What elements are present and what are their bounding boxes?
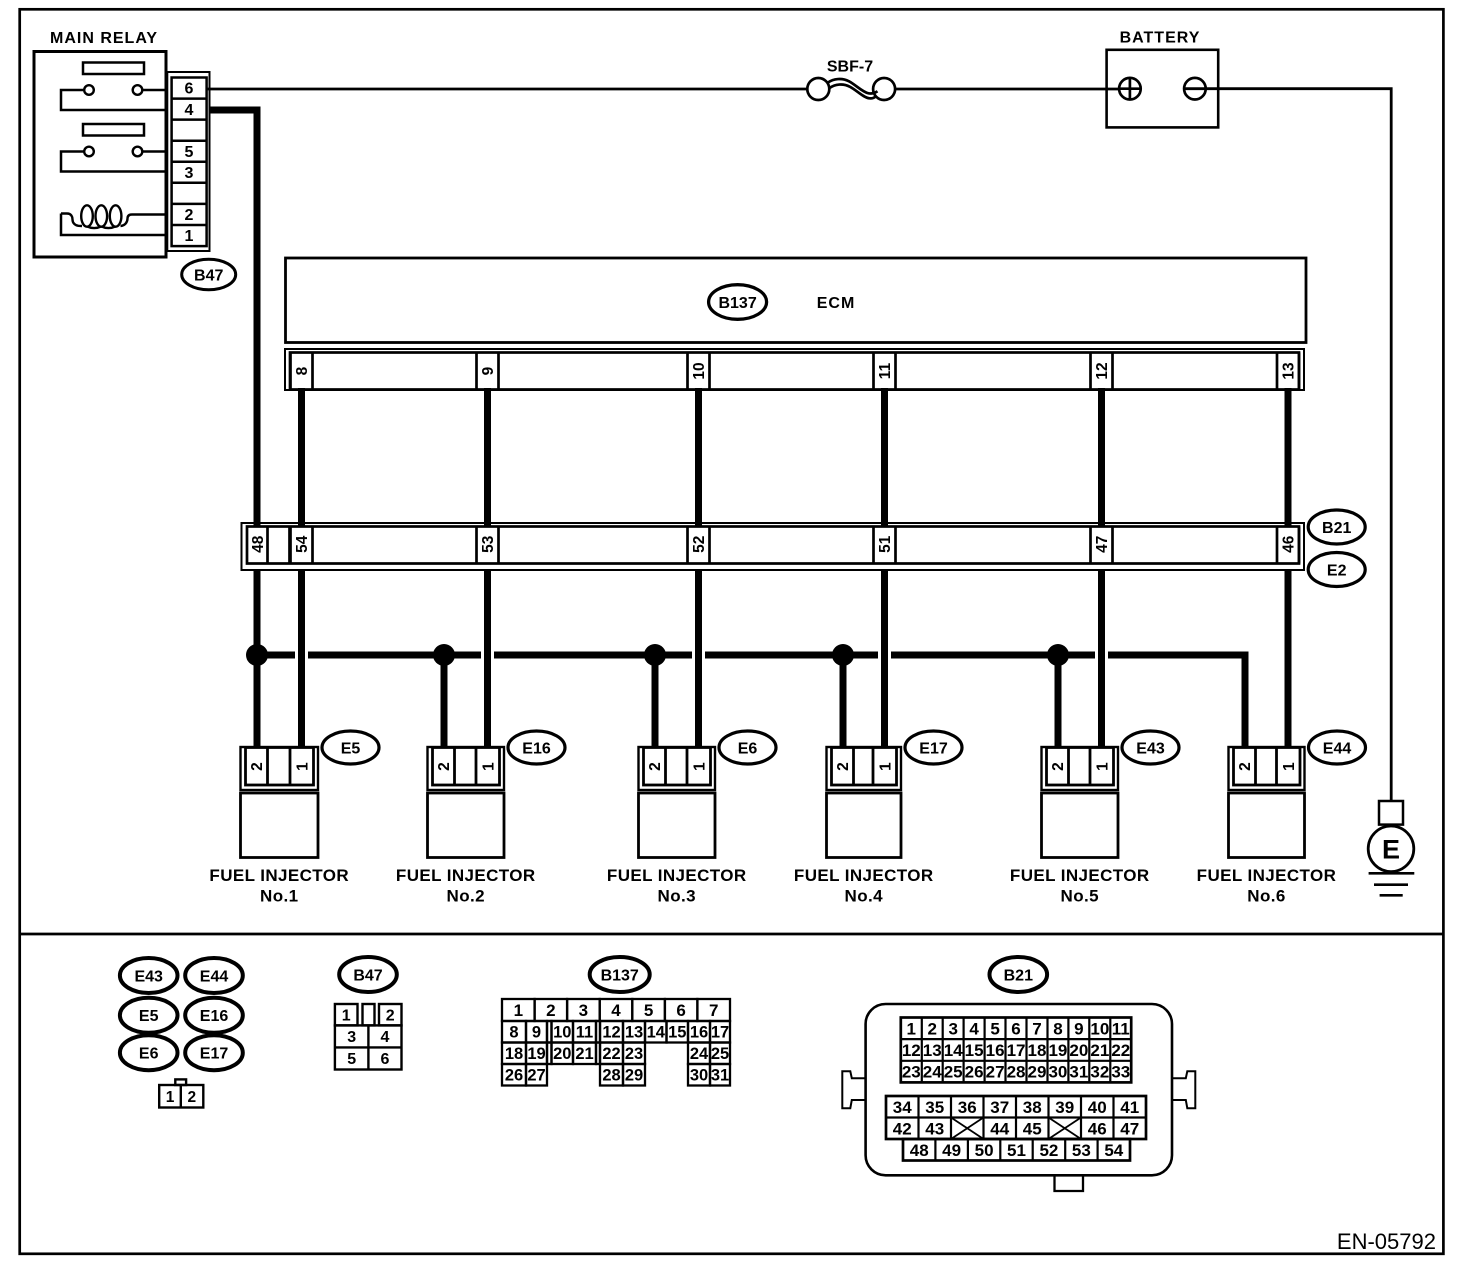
svg-text:B21: B21: [1004, 967, 1033, 984]
pin 46: [1281, 535, 1298, 553]
wire: bus down to injector No.3 pin 2: [652, 655, 659, 748]
B21 view pin 1: [907, 1019, 916, 1038]
svg-text:No.5: No.5: [1061, 887, 1099, 906]
B47 view pin 5: [347, 1051, 356, 1068]
svg-text:26: 26: [965, 1063, 984, 1082]
fuel injector No.5 connector: [1042, 747, 1119, 858]
svg-text:53: 53: [480, 535, 497, 553]
battery positive terminal: [1119, 78, 1141, 100]
injector No.6 pin 1: [1281, 762, 1298, 771]
wire: injector supply bus segment 4: [705, 652, 878, 659]
ECM pin 8: [294, 366, 311, 375]
injector No.4 pin 2: [835, 762, 852, 771]
svg-text:6: 6: [381, 1051, 390, 1068]
svg-text:15: 15: [668, 1024, 686, 1042]
svg-text:SBF-7: SBF-7: [827, 59, 873, 76]
wire: injector supply bus segment 6: [1108, 652, 1249, 659]
svg-text:12: 12: [1094, 362, 1111, 379]
svg-text:2: 2: [647, 762, 664, 771]
connector B47 pin strip: [172, 78, 207, 247]
injector No.1 pin 1: [295, 762, 312, 771]
svg-text:FUEL INJECTOR: FUEL INJECTOR: [607, 866, 747, 885]
fuse SBF-7: [807, 78, 895, 100]
svg-text:49: 49: [942, 1141, 961, 1160]
svg-text:46: 46: [1088, 1119, 1107, 1138]
fuel injector No.6 connector: [1229, 747, 1305, 858]
svg-text:E5: E5: [139, 1008, 159, 1025]
svg-text:5: 5: [644, 1001, 653, 1020]
connector B47 pin view: [335, 1004, 402, 1070]
fuel injector No.2 label: [396, 866, 536, 906]
svg-text:31: 31: [1069, 1063, 1088, 1082]
connector B137 pin view: [502, 999, 730, 1086]
svg-text:17: 17: [1007, 1041, 1026, 1060]
svg-text:3: 3: [347, 1029, 356, 1046]
svg-text:51: 51: [877, 535, 894, 553]
B137 view pin 6: [676, 1001, 685, 1020]
svg-text:26: 26: [505, 1067, 523, 1085]
B21 view pin 41: [1120, 1098, 1139, 1117]
connector B47 outline: [167, 72, 209, 251]
B137 view pin 27: [527, 1067, 545, 1085]
B21 view pin 3: [948, 1019, 957, 1038]
wire: bus down to injector No.5 pin 2: [1055, 655, 1062, 748]
svg-text:18: 18: [505, 1045, 523, 1063]
B21 view pin 27: [986, 1063, 1005, 1082]
svg-text:16: 16: [986, 1041, 1005, 1060]
svg-text:1: 1: [342, 1008, 351, 1025]
connector E2 designator oval: [1308, 553, 1365, 587]
svg-text:FUEL INJECTOR: FUEL INJECTOR: [794, 866, 934, 885]
relay coil wire to pin 1: [61, 214, 167, 236]
svg-text:54: 54: [294, 535, 311, 553]
svg-text:2: 2: [386, 1008, 395, 1025]
connector E16 designator oval: [508, 731, 565, 764]
svg-text:No.2: No.2: [447, 887, 485, 906]
B21 view pin 42: [893, 1119, 912, 1138]
B21 view pins 48-54 grid: [903, 1139, 1130, 1161]
svg-text:10: 10: [1090, 1019, 1109, 1038]
ECM connector strip cells: [290, 353, 1299, 390]
B47 view pin 2: [386, 1008, 395, 1025]
svg-text:EN-05792: EN-05792: [1337, 1229, 1436, 1254]
injector No.3 pin 2: [647, 762, 664, 771]
B21 view pin 47: [1120, 1119, 1139, 1138]
svg-text:20: 20: [1069, 1041, 1088, 1060]
B21 view pin 7: [1032, 1019, 1041, 1038]
B21 view pin 11: [1112, 1019, 1130, 1038]
svg-text:8: 8: [294, 366, 311, 375]
wire: injector supply bus segment 1: [254, 652, 296, 659]
relay contact 2 wire to pin 5: [142, 150, 167, 153]
connector E16 designator oval (legend): [185, 998, 243, 1033]
injector pin view pin 1: [166, 1089, 175, 1106]
wire: relay pin 6 to fuse SBF-7: [207, 88, 808, 91]
svg-text:2: 2: [1050, 762, 1067, 771]
ECM label: [817, 295, 856, 312]
svg-text:36: 36: [958, 1098, 977, 1117]
pin 53: [480, 535, 497, 553]
svg-text:2: 2: [436, 762, 453, 771]
B137 view pin 21: [575, 1045, 593, 1063]
wire: ECM pin 13 down to middle connector: [1285, 388, 1292, 527]
fuel injector No.4 label: [794, 866, 934, 906]
svg-text:54: 54: [1104, 1141, 1123, 1160]
B47 view pin 1: [342, 1008, 351, 1025]
svg-text:1: 1: [481, 762, 498, 771]
svg-text:3: 3: [579, 1001, 588, 1020]
main relay box: [34, 52, 166, 258]
svg-text:FUEL INJECTOR: FUEL INJECTOR: [209, 866, 349, 885]
wire: ECM pin 9 down to middle connector: [484, 388, 491, 527]
svg-text:E43: E43: [134, 968, 163, 985]
B21 view pin 48: [910, 1141, 929, 1160]
svg-text:E17: E17: [200, 1046, 229, 1063]
ECM pin 10: [691, 362, 708, 379]
B21 view pin 43: [925, 1119, 944, 1138]
ground symbol: [1369, 873, 1415, 895]
B21 view pin 52: [1039, 1141, 1058, 1160]
fuel injector No.3 connector: [639, 747, 716, 858]
svg-text:E44: E44: [200, 968, 229, 985]
svg-text:52: 52: [1039, 1141, 1058, 1160]
main relay label: [50, 30, 158, 47]
svg-text:6: 6: [185, 81, 194, 98]
svg-text:2: 2: [185, 207, 194, 224]
svg-text:9: 9: [532, 1024, 541, 1042]
svg-text:28: 28: [1007, 1063, 1026, 1082]
pin 54: [294, 535, 311, 553]
B21 view pin 22: [1111, 1041, 1130, 1060]
B21 view pin 53: [1072, 1141, 1091, 1160]
svg-text:23: 23: [625, 1045, 643, 1063]
svg-text:E6: E6: [738, 740, 758, 757]
B21 view pin 38: [1023, 1098, 1042, 1117]
fuel injector No.2 connector: [428, 747, 505, 858]
relay contact 1 circles: [84, 85, 142, 95]
junction node injector 2: [433, 644, 455, 666]
wire: injector supply bus segment 2: [308, 652, 481, 659]
battery label: [1120, 30, 1201, 47]
B21 view pin 16: [986, 1041, 1005, 1060]
svg-text:30: 30: [1048, 1063, 1067, 1082]
svg-text:24: 24: [923, 1063, 942, 1082]
svg-text:43: 43: [925, 1119, 944, 1138]
svg-text:17: 17: [711, 1024, 729, 1042]
B137 view pin 29: [625, 1067, 643, 1085]
relay contact 2 circles: [84, 147, 142, 157]
connector E6 designator oval: [719, 731, 776, 764]
svg-text:10: 10: [553, 1024, 571, 1042]
svg-text:3: 3: [185, 165, 194, 182]
svg-text:13: 13: [625, 1024, 643, 1042]
svg-text:8: 8: [509, 1024, 518, 1042]
svg-text:39: 39: [1055, 1098, 1074, 1117]
B137 view pin 14: [647, 1024, 666, 1042]
svg-text:E17: E17: [919, 740, 948, 757]
B47 view pin 3: [347, 1029, 356, 1046]
svg-text:7: 7: [1032, 1019, 1041, 1038]
wire: injector supply bus segment 3: [494, 652, 692, 659]
svg-text:19: 19: [527, 1045, 545, 1063]
B137 view pin 9: [532, 1024, 541, 1042]
svg-text:38: 38: [1023, 1098, 1042, 1117]
B21 view pin 5: [990, 1019, 999, 1038]
B137 view pin 3: [579, 1001, 588, 1020]
B137 view pin 5: [644, 1001, 653, 1020]
svg-text:19: 19: [1048, 1041, 1067, 1060]
svg-text:25: 25: [711, 1045, 729, 1063]
B21 view pin 26: [965, 1063, 984, 1082]
svg-text:B137: B137: [601, 967, 639, 984]
svg-text:6: 6: [1011, 1019, 1020, 1038]
relay contact 2 bar: [83, 124, 144, 136]
B137 view pin 15: [668, 1024, 686, 1042]
svg-text:2: 2: [546, 1001, 555, 1020]
fuel injector No.3 label: [607, 866, 747, 906]
svg-text:2: 2: [927, 1019, 936, 1038]
B137 view pin 23: [625, 1045, 643, 1063]
middle connector strip cells (B21): [247, 527, 1299, 564]
B137 view pin 1: [514, 1001, 523, 1020]
B21 view pin 18: [1028, 1041, 1047, 1060]
svg-text:27: 27: [986, 1063, 1005, 1082]
injector No.2 pin 2: [436, 762, 453, 771]
wire: pin 48 down to bus junction: [254, 570, 261, 656]
svg-text:14: 14: [647, 1024, 666, 1042]
B137 view pin 4: [611, 1001, 621, 1020]
ECM pin 9: [480, 366, 497, 375]
svg-text:B21: B21: [1322, 520, 1351, 537]
junction node injector 1: [246, 644, 268, 666]
svg-text:E16: E16: [200, 1008, 229, 1025]
svg-text:21: 21: [575, 1045, 593, 1063]
relay contact 1 wire to pin 4: [61, 90, 167, 110]
svg-text:E43: E43: [1136, 740, 1165, 757]
pin 47: [1094, 536, 1111, 553]
relay contact 2 wire to pin 3: [61, 152, 167, 172]
B21 view pin 36: [958, 1098, 977, 1117]
pin 4: [185, 102, 194, 119]
svg-text:5: 5: [347, 1051, 356, 1068]
relay coil: [61, 205, 167, 228]
B21 view pin 15: [965, 1041, 984, 1060]
svg-text:4: 4: [611, 1001, 621, 1020]
fuel injector No.1 label: [209, 866, 349, 906]
wire: battery negative to ground E: [1184, 89, 1391, 802]
connector E17 designator oval: [905, 731, 962, 764]
svg-text:13: 13: [923, 1041, 942, 1060]
svg-text:22: 22: [1111, 1041, 1130, 1060]
svg-text:FUEL INJECTOR: FUEL INJECTOR: [1197, 866, 1337, 885]
B21 view pin 37: [990, 1098, 1009, 1117]
svg-text:12: 12: [902, 1041, 921, 1060]
B21 view pins 34-47 grid: [886, 1096, 1146, 1139]
B21 view pin 49: [942, 1141, 961, 1160]
svg-text:4: 4: [969, 1019, 979, 1038]
B21 view pin 4: [969, 1019, 979, 1038]
B137 view pin 11: [576, 1024, 593, 1042]
pin 48: [250, 535, 267, 553]
B137 view pin 31: [711, 1067, 729, 1085]
svg-text:2: 2: [249, 762, 266, 771]
svg-text:53: 53: [1072, 1141, 1091, 1160]
svg-text:MAIN RELAY: MAIN RELAY: [50, 30, 158, 47]
svg-text:50: 50: [975, 1141, 994, 1160]
svg-text:B47: B47: [353, 967, 382, 984]
drawing number EN-05792: [1337, 1229, 1436, 1254]
svg-text:3: 3: [948, 1019, 957, 1038]
svg-text:37: 37: [990, 1098, 1009, 1117]
svg-text:22: 22: [602, 1045, 620, 1063]
svg-text:6: 6: [676, 1001, 685, 1020]
svg-text:BATTERY: BATTERY: [1120, 30, 1201, 47]
ECM connector B137 oval: [709, 285, 767, 320]
svg-text:48: 48: [910, 1141, 929, 1160]
wire: ECM pin 12 down to middle connector: [1098, 388, 1105, 527]
B21 view pin 44: [990, 1119, 1009, 1138]
B21 view pin 28: [1007, 1063, 1026, 1082]
connector E17 designator oval (legend): [185, 1035, 243, 1070]
svg-text:No.6: No.6: [1247, 887, 1285, 906]
wire: relay pin 4 to pin 48: [210, 110, 257, 527]
B137 view pin 10: [553, 1024, 571, 1042]
B137 view pin 28: [602, 1067, 620, 1085]
B21 view blocked cavity: [951, 1118, 984, 1140]
svg-text:B137: B137: [718, 295, 756, 312]
wire: middle connector down to injector No.5 pin 1: [1098, 570, 1105, 749]
B137 view pin 20: [553, 1045, 571, 1063]
wire: middle connector down to injector No.3 pin 1: [695, 570, 702, 749]
connector B47 designator oval (legend): [339, 957, 397, 992]
B137 view pin 22: [602, 1045, 620, 1063]
injector No.1 pin 2: [249, 762, 266, 771]
svg-text:No.4: No.4: [845, 887, 884, 906]
svg-text:27: 27: [527, 1067, 545, 1085]
B47 view pin 4: [381, 1029, 390, 1046]
svg-text:1: 1: [166, 1089, 175, 1106]
B21 view pin 9: [1074, 1019, 1083, 1038]
svg-text:11: 11: [576, 1024, 593, 1042]
pin 51: [877, 535, 894, 553]
svg-text:28: 28: [602, 1067, 620, 1085]
wire: ECM pin 8 down to middle connector: [298, 388, 305, 527]
svg-text:13: 13: [1281, 362, 1298, 380]
injector connector pin view: [159, 1079, 203, 1107]
svg-text:12: 12: [602, 1024, 620, 1042]
svg-text:E16: E16: [522, 740, 551, 757]
connector B21 designator oval: [1308, 510, 1365, 544]
battery box: [1107, 50, 1219, 128]
injector No.4 pin 1: [878, 762, 895, 771]
B21 view pin 40: [1088, 1098, 1107, 1117]
ECM connector strip outline: [285, 349, 1304, 390]
B21 view pin 25: [944, 1063, 963, 1082]
B137 view pin 13: [625, 1024, 643, 1042]
svg-text:2: 2: [835, 762, 852, 771]
wire: bus down to injector No.1 pin 2: [254, 655, 261, 748]
svg-text:48: 48: [250, 535, 267, 553]
injector No.6 pin 2: [1237, 762, 1254, 771]
svg-text:E44: E44: [1323, 740, 1352, 757]
junction node injector 5: [1047, 644, 1069, 666]
injector No.5 pin 1: [1095, 762, 1112, 771]
pin 2: [185, 207, 194, 224]
svg-text:B47: B47: [194, 267, 223, 284]
connector E6 designator oval (legend): [120, 1035, 178, 1070]
connector B21 pin view housing: [842, 1004, 1195, 1191]
svg-text:7: 7: [709, 1001, 718, 1020]
B21 view pin 23: [902, 1063, 921, 1082]
wire: fuse to battery positive: [895, 88, 1119, 91]
connector E43 designator oval: [1122, 731, 1179, 764]
svg-text:44: 44: [990, 1119, 1009, 1138]
svg-text:No.3: No.3: [658, 887, 696, 906]
battery negative terminal: [1184, 78, 1206, 100]
svg-text:FUEL INJECTOR: FUEL INJECTOR: [396, 866, 536, 885]
B21 view pin 39: [1055, 1098, 1074, 1117]
svg-text:E2: E2: [1327, 562, 1347, 579]
wire: bus down to injector No.4 pin 2: [840, 655, 847, 748]
junction node injector 4: [832, 644, 854, 666]
B21 view pin 54: [1104, 1141, 1123, 1160]
svg-text:1: 1: [878, 762, 895, 771]
injector pin view pin 2: [187, 1089, 196, 1106]
connector B21 designator oval (legend): [990, 957, 1048, 992]
B21 view pin 24: [923, 1063, 942, 1082]
svg-text:14: 14: [944, 1041, 963, 1060]
connector E43 designator oval (legend): [120, 958, 178, 993]
svg-text:10: 10: [691, 362, 708, 379]
svg-text:52: 52: [691, 536, 708, 553]
svg-text:20: 20: [553, 1045, 571, 1063]
svg-text:E: E: [1382, 835, 1400, 865]
injector No.5 pin 2: [1050, 762, 1067, 771]
wire: injector supply bus segment 5: [891, 652, 1095, 659]
svg-text:21: 21: [1090, 1041, 1109, 1060]
svg-text:9: 9: [1074, 1019, 1083, 1038]
wire: middle connector down to injector No.1 pin 1: [298, 570, 305, 749]
B21 view pin 45: [1023, 1119, 1042, 1138]
svg-text:35: 35: [925, 1098, 944, 1117]
svg-text:1: 1: [185, 228, 194, 245]
B21 view pin 21: [1090, 1041, 1109, 1060]
B21 view pin 20: [1069, 1041, 1088, 1060]
injector No.2 pin 1: [481, 762, 498, 771]
connector E44 designator oval: [1309, 731, 1366, 764]
svg-text:ECM: ECM: [817, 295, 856, 312]
B21 view pin 19: [1048, 1041, 1067, 1060]
B21 view pin 29: [1028, 1063, 1047, 1082]
svg-text:33: 33: [1111, 1063, 1130, 1082]
B21 view pin 10: [1090, 1019, 1109, 1038]
svg-text:29: 29: [1028, 1063, 1047, 1082]
wire: ECM pin 11 down to middle connector: [881, 388, 888, 527]
fuel injector No.4 connector: [827, 747, 902, 858]
svg-text:8: 8: [1053, 1019, 1062, 1038]
connector E5 designator oval (legend): [120, 998, 178, 1033]
B137 view pin 26: [505, 1067, 523, 1085]
fuel injector No.6 label: [1197, 866, 1337, 906]
svg-text:25: 25: [944, 1063, 963, 1082]
connector E44 designator oval (legend): [185, 958, 243, 993]
svg-text:4: 4: [185, 102, 194, 119]
B21 view pins 1-33 grid: [901, 1018, 1131, 1083]
svg-text:No.1: No.1: [260, 887, 298, 906]
junction node injector 3: [644, 644, 666, 666]
svg-text:23: 23: [902, 1063, 921, 1082]
B137 view pin 24: [690, 1045, 709, 1063]
